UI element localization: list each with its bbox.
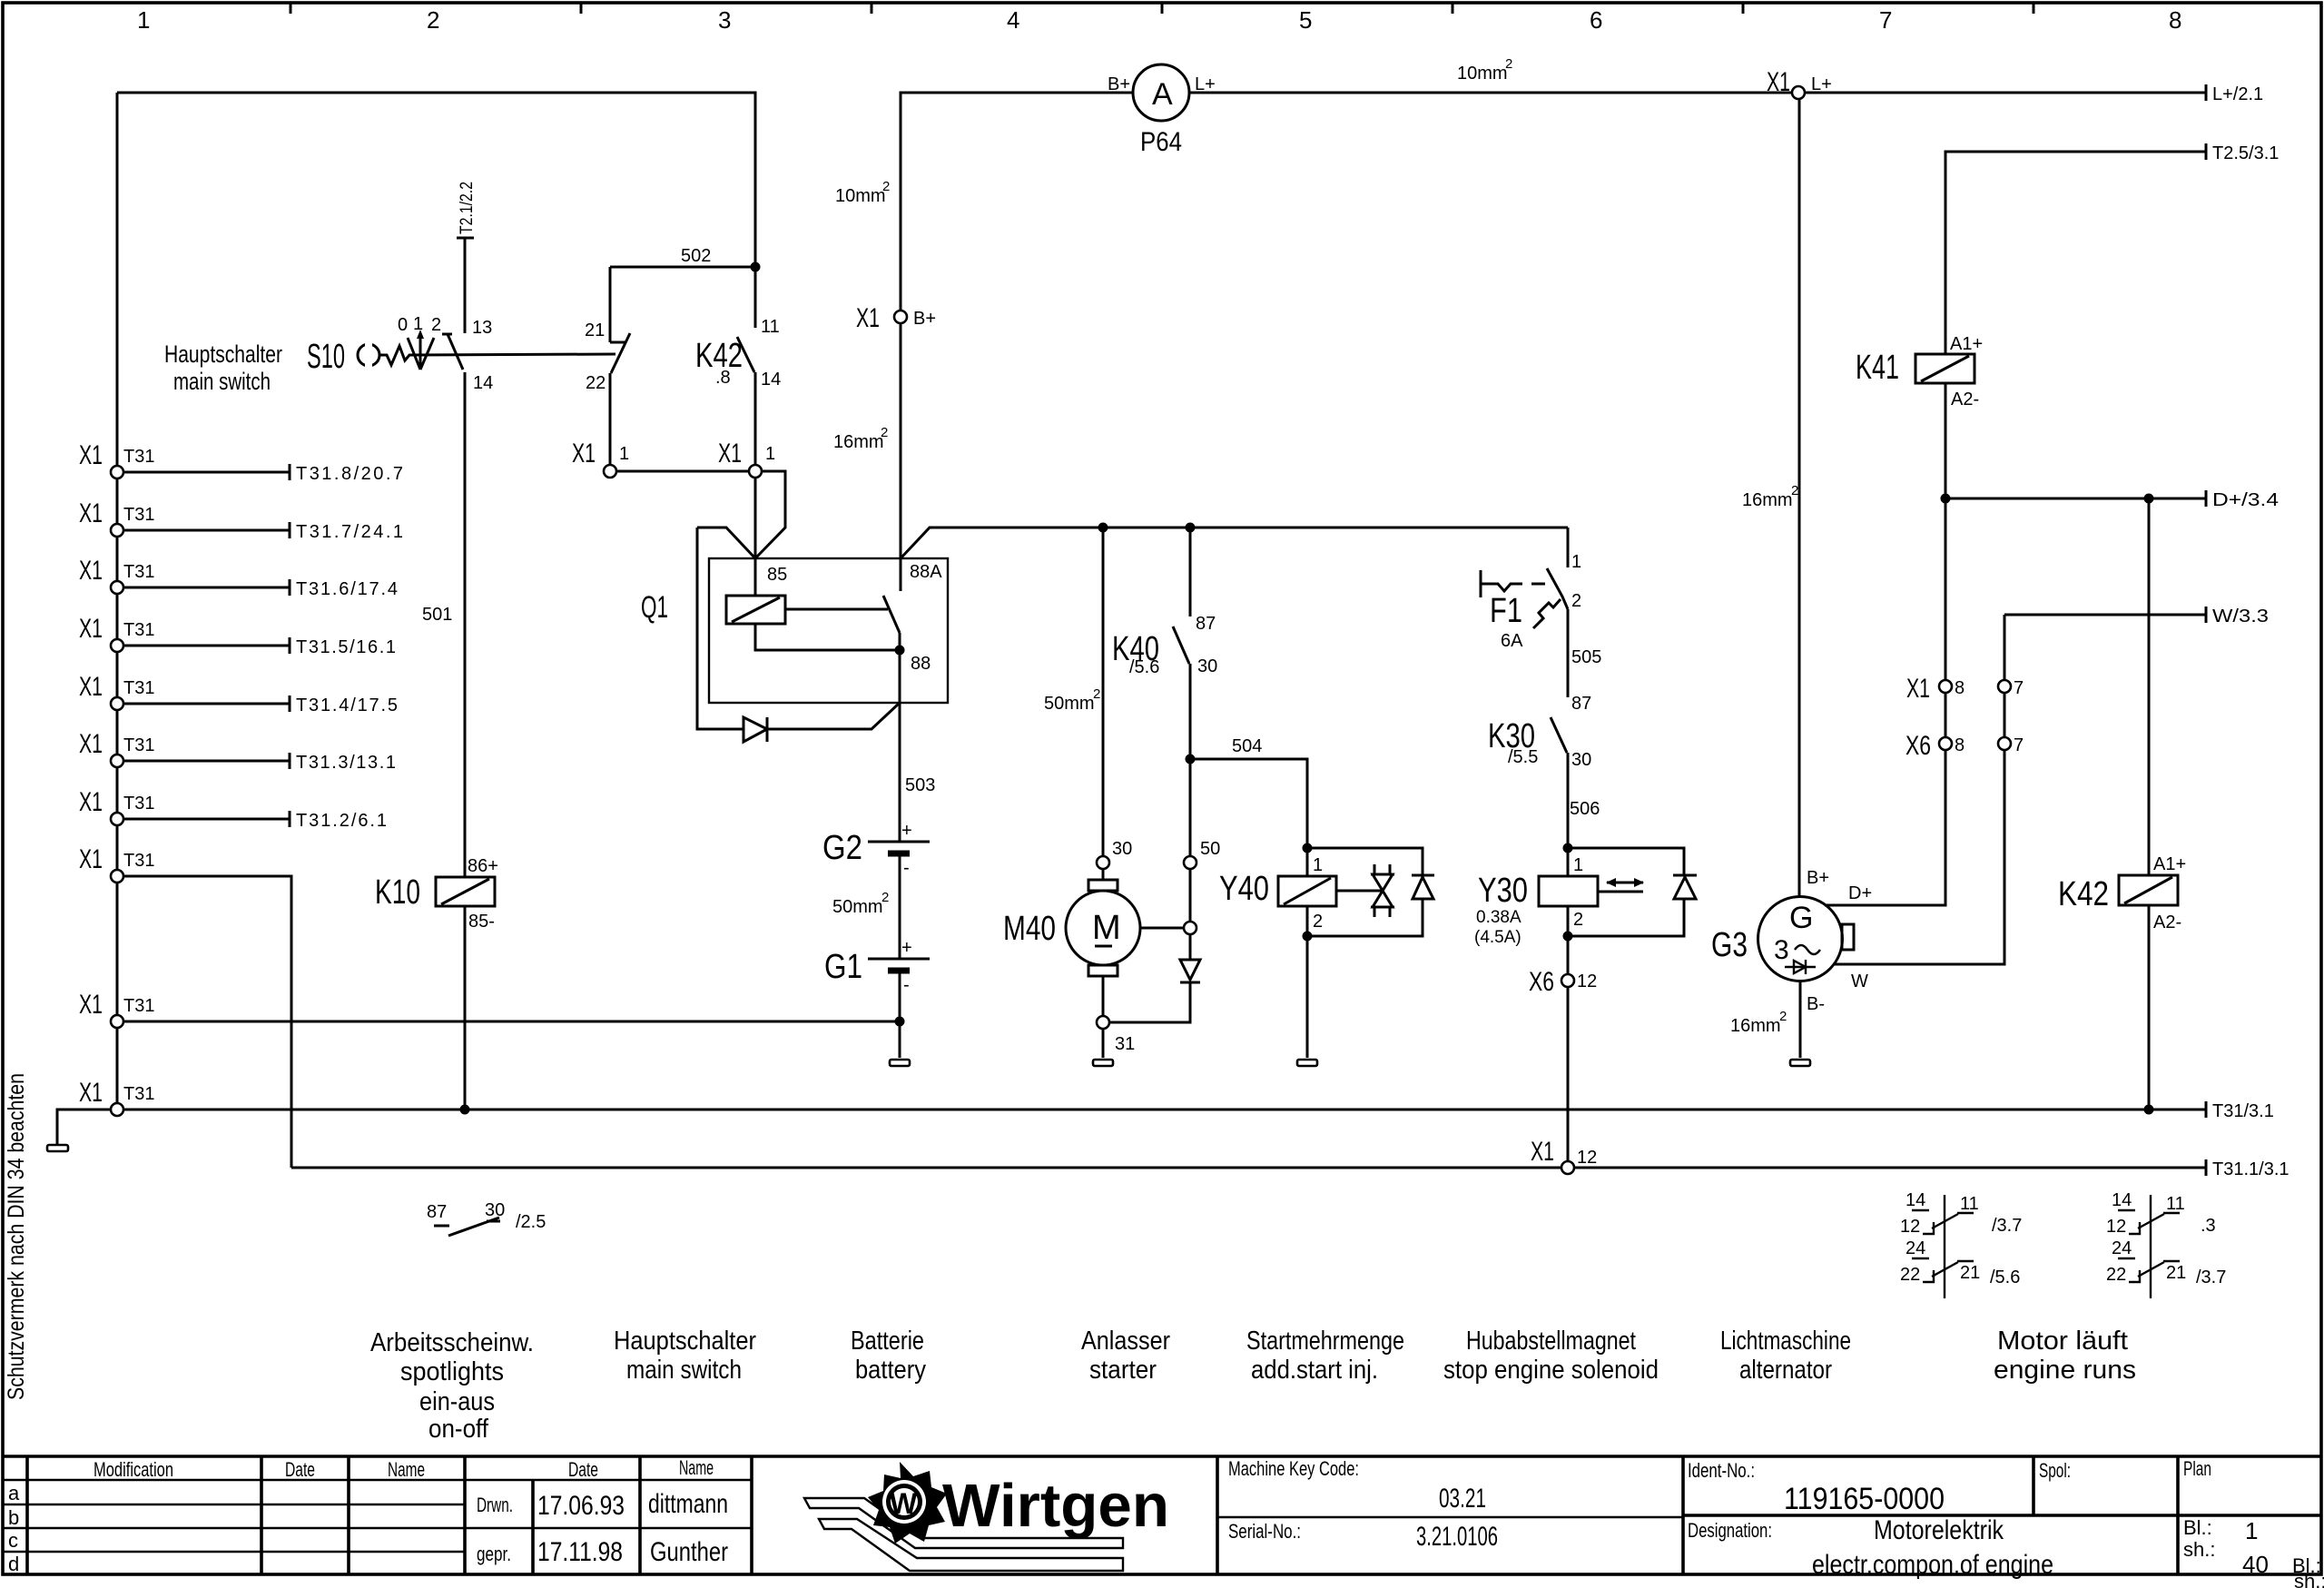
terminal 50	[1189, 759, 1192, 856]
svg-text:10mm: 10mm	[835, 186, 886, 206]
svg-text:1: 1	[413, 314, 423, 334]
terminal X1 T31 row6	[79, 729, 396, 773]
svg-text:50mm: 50mm	[832, 897, 883, 917]
svg-text:alternator: alternator	[1739, 1356, 1832, 1385]
wire 502	[610, 266, 755, 269]
svg-text:2: 2	[1779, 1009, 1787, 1024]
svg-text:X6: X6	[1529, 967, 1554, 997]
svg-text:/3.7: /3.7	[1992, 1216, 2022, 1236]
svg-text:Date: Date	[285, 1458, 315, 1481]
flag T31/3.1	[2149, 1109, 2206, 1111]
battery G1	[824, 938, 930, 995]
svg-text:d: d	[8, 1553, 19, 1575]
svg-text:T31.2/6.1: T31.2/6.1	[296, 811, 387, 831]
svg-text:sh.:: sh.:	[2294, 1570, 2324, 1588]
svg-text:K42: K42	[2058, 875, 2109, 913]
svg-text:c: c	[8, 1529, 18, 1552]
svg-text:T31: T31	[123, 505, 154, 525]
svg-text:add.start inj.: add.start inj.	[1251, 1356, 1378, 1385]
wire D+	[1825, 498, 1945, 905]
legend captions	[370, 1327, 2136, 1444]
wire W	[1834, 615, 2004, 991]
svg-text:Batterie: Batterie	[851, 1327, 924, 1356]
terminal X1:8	[1939, 680, 1952, 693]
svg-text:Drwn.: Drwn.	[477, 1494, 513, 1516]
svg-text:501: 501	[422, 605, 452, 625]
svg-text:/2.5: /2.5	[516, 1212, 546, 1232]
svg-text:5: 5	[1299, 6, 1312, 34]
svg-text:/5.5: /5.5	[1508, 747, 1538, 767]
svg-text:A: A	[1152, 77, 1173, 112]
contact K40 87/30	[1112, 528, 1217, 759]
flag T2.1/2.2	[457, 237, 474, 240]
contact K30 87/30	[1488, 694, 1591, 848]
svg-text:T31: T31	[123, 447, 154, 467]
svg-text:3: 3	[1774, 935, 1789, 965]
svg-text:30: 30	[1112, 839, 1132, 859]
svg-text:D+/3.4: D+/3.4	[2212, 490, 2279, 510]
svg-text:7: 7	[2014, 735, 2024, 755]
diode starter	[1189, 934, 1192, 960]
svg-text:6A: 6A	[1501, 631, 1523, 651]
svg-text:13: 13	[472, 318, 492, 338]
svg-text:2: 2	[1313, 912, 1323, 932]
svg-text:50: 50	[1200, 839, 1220, 859]
terminal X1 L+	[1792, 86, 1805, 99]
svg-text:03.21: 03.21	[1439, 1484, 1486, 1514]
svg-text:11: 11	[761, 317, 780, 337]
svg-text:K41: K41	[1856, 349, 1899, 387]
svg-text:B-: B-	[1807, 994, 1825, 1014]
svg-text:X1: X1	[79, 1078, 103, 1108]
svg-text:/5.6: /5.6	[1129, 657, 1159, 677]
terminal X6:8	[1939, 737, 1952, 750]
contact table K41	[1900, 1190, 2022, 1298]
svg-text:2: 2	[881, 425, 888, 440]
svg-text:dittmann: dittmann	[648, 1489, 728, 1519]
terminal X1:1 left	[604, 465, 616, 478]
svg-text:.3: .3	[2201, 1216, 2216, 1236]
svg-text:Hubabstellmagnet: Hubabstellmagnet	[1466, 1327, 1636, 1356]
wire row T31 bus	[123, 1109, 2149, 1111]
svg-text:Motor läuft: Motor läuft	[1997, 1327, 2128, 1356]
flag D+/3.4	[1941, 494, 1951, 504]
svg-text:2: 2	[431, 315, 441, 335]
solenoid Y40	[1219, 843, 1434, 1067]
svg-text:2: 2	[1791, 483, 1798, 498]
svg-text:16mm: 16mm	[833, 432, 884, 452]
logo Wirtgen	[804, 1462, 1169, 1571]
svg-text:-: -	[903, 975, 910, 995]
svg-text:3: 3	[718, 6, 731, 34]
svg-text:30: 30	[1197, 656, 1217, 676]
svg-text:6: 6	[1590, 6, 1602, 34]
svg-text:Name: Name	[679, 1456, 714, 1479]
flag T31.1/3.1	[2205, 1159, 2208, 1176]
svg-text:W: W	[1851, 972, 1868, 991]
svg-text:T31.8/20.7: T31.8/20.7	[296, 464, 403, 484]
alternator G3	[1711, 99, 1854, 1066]
node junction at M40 column	[1098, 523, 1108, 533]
svg-text:1: 1	[1313, 855, 1323, 875]
motor M40	[1003, 839, 1184, 1066]
svg-text:85: 85	[767, 565, 787, 585]
wire 505	[1567, 609, 1570, 697]
svg-text:14: 14	[761, 370, 781, 390]
wire X1 pair to Q1	[616, 470, 749, 473]
svg-text:Ident-No.:: Ident-No.:	[1688, 1459, 1755, 1482]
svg-text:4: 4	[1007, 6, 1019, 34]
svg-text:85-: 85-	[468, 912, 495, 932]
svg-text:P64: P64	[1140, 127, 1182, 157]
terminal X1 T31 row8	[79, 844, 291, 1168]
svg-text:electr.compon.of engine: electr.compon.of engine	[1812, 1550, 2053, 1580]
svg-text:X1: X1	[1767, 67, 1790, 97]
terminal X1 T31 row1	[79, 440, 403, 484]
svg-text:X1: X1	[79, 729, 103, 759]
svg-text:ein-aus: ein-aus	[419, 1387, 495, 1416]
svg-text:2: 2	[427, 6, 439, 34]
svg-text:.8: .8	[715, 368, 731, 388]
terminal rows X1 T31 with flags	[79, 440, 900, 1168]
svg-text:sh.:: sh.:	[2183, 1538, 2215, 1561]
wire battery middle	[899, 853, 901, 959]
svg-text:17.11.98: 17.11.98	[537, 1537, 623, 1567]
svg-text:2: 2	[882, 179, 890, 194]
terminal X1 T31 row2	[79, 498, 403, 542]
svg-text:Name: Name	[388, 1458, 425, 1481]
svg-text:Anlasser: Anlasser	[1081, 1327, 1170, 1356]
svg-text:T31.4/17.5: T31.4/17.5	[296, 695, 398, 715]
svg-text:A1+: A1+	[2153, 854, 2186, 874]
svg-text:2: 2	[1505, 56, 1512, 72]
wire M40 feed	[1102, 528, 1105, 856]
svg-text:31: 31	[1115, 1034, 1135, 1054]
svg-text:0.38A: 0.38A	[1476, 908, 1521, 927]
svg-text:Serial-No.:: Serial-No.:	[1228, 1520, 1301, 1543]
svg-text:X1: X1	[1531, 1137, 1554, 1167]
svg-text:21: 21	[2166, 1263, 2186, 1283]
svg-text:A2-: A2-	[1951, 390, 1979, 409]
terminal X6:12	[1567, 936, 1570, 974]
svg-text:3.21.0106: 3.21.0106	[1416, 1522, 1498, 1552]
svg-text:G2: G2	[822, 829, 862, 867]
contact table K42	[2106, 1190, 2226, 1298]
svg-text:M40: M40	[1003, 910, 1056, 948]
terminal X1 T31 row5	[79, 672, 398, 715]
svg-text:G: G	[1789, 901, 1813, 935]
svg-text:X1: X1	[718, 439, 742, 469]
svg-text:X1: X1	[79, 787, 103, 817]
svg-text:A2-: A2-	[2153, 912, 2181, 932]
svg-text:50mm: 50mm	[1044, 694, 1095, 714]
svg-text:B+: B+	[913, 309, 936, 329]
svg-text:T31/3.1: T31/3.1	[2212, 1101, 2274, 1121]
svg-text:7: 7	[2014, 678, 2024, 698]
svg-text:86+: 86+	[468, 856, 498, 876]
breaker F1	[1481, 528, 1581, 651]
svg-text:T31.5/16.1: T31.5/16.1	[296, 637, 396, 657]
svg-text:T31: T31	[123, 851, 154, 871]
svg-text:11: 11	[1960, 1194, 1979, 1214]
svg-text:12: 12	[1577, 972, 1597, 991]
svg-text:Modification: Modification	[94, 1458, 173, 1481]
svg-text:14: 14	[473, 373, 493, 393]
wire top-right bus	[1189, 92, 1792, 94]
svg-text:Hauptschalter: Hauptschalter	[164, 340, 282, 368]
svg-text:G1: G1	[824, 948, 862, 986]
svg-text:8: 8	[1955, 735, 1965, 755]
svg-text:X1: X1	[1906, 674, 1930, 704]
svg-text:Machine Key Code:: Machine Key Code:	[1228, 1457, 1359, 1480]
svg-text:main switch: main switch	[626, 1356, 742, 1385]
terminal X1 T31 row10	[79, 1078, 154, 1116]
svg-text:X1: X1	[79, 498, 103, 528]
wire 504	[1186, 755, 1196, 764]
svg-text:X1: X1	[856, 303, 880, 333]
wire left rail	[116, 93, 119, 1110]
svg-text:T31.6/17.4: T31.6/17.4	[296, 579, 398, 599]
svg-text:8: 8	[1955, 678, 1965, 698]
svg-text:Startmehrmenge: Startmehrmenge	[1246, 1327, 1404, 1356]
svg-text:M: M	[1092, 909, 1121, 947]
svg-text:X1: X1	[79, 990, 103, 1020]
svg-text:12: 12	[2106, 1217, 2126, 1237]
wire top-left bus	[117, 93, 755, 328]
svg-text:X6: X6	[1905, 731, 1931, 761]
svg-text:87: 87	[1196, 614, 1216, 634]
switch S10	[164, 314, 615, 395]
svg-text:starter: starter	[1089, 1356, 1157, 1385]
svg-text:T2.1/2.2: T2.1/2.2	[458, 182, 477, 234]
svg-text:a: a	[8, 1482, 20, 1504]
svg-text:Bl.:: Bl.:	[2183, 1516, 2212, 1539]
svg-text:40: 40	[2242, 1551, 2269, 1578]
svg-text:14: 14	[2112, 1190, 2132, 1210]
svg-text:on-off: on-off	[428, 1415, 489, 1444]
svg-text:21: 21	[585, 321, 605, 340]
svg-text:gepr.: gepr.	[477, 1543, 511, 1565]
svg-text:504: 504	[1232, 736, 1262, 756]
relay coil K10	[375, 856, 498, 1110]
svg-text:24: 24	[2112, 1238, 2132, 1258]
relay coil K41	[1856, 334, 1983, 498]
svg-text:22: 22	[586, 373, 606, 393]
terminal X1:1 right	[749, 465, 762, 478]
relay Q1	[641, 528, 1568, 842]
svg-text:W/3.3: W/3.3	[2212, 607, 2269, 626]
svg-text:Hauptschalter: Hauptschalter	[614, 1327, 756, 1356]
svg-text:12: 12	[1900, 1217, 1920, 1237]
ground left	[57, 1110, 111, 1145]
svg-text:2: 2	[1571, 591, 1581, 611]
svg-text:Wirtgen: Wirtgen	[942, 1472, 1169, 1540]
svg-text:stop engine solenoid: stop engine solenoid	[1443, 1356, 1659, 1385]
svg-text:88: 88	[911, 654, 931, 674]
svg-text:battery: battery	[855, 1356, 926, 1385]
svg-text:22: 22	[1900, 1265, 1920, 1285]
svg-text:B+: B+	[1807, 868, 1829, 888]
svg-text:Schutzvermerk nach DIN 34 beac: Schutzvermerk nach DIN 34 beachten	[4, 1073, 29, 1400]
terminal X1:12	[1561, 1161, 1574, 1174]
svg-text:87: 87	[1571, 694, 1591, 714]
contact S10 13/14	[442, 318, 493, 393]
svg-text:503: 503	[905, 775, 935, 795]
svg-text:+: +	[901, 821, 912, 841]
wire X1 B+ column	[901, 93, 1133, 311]
svg-text:1: 1	[137, 6, 150, 34]
svg-text:0: 0	[398, 315, 408, 335]
svg-text:main switch: main switch	[173, 368, 271, 395]
flag W/3.3	[2004, 614, 2206, 616]
svg-text:B+: B+	[1108, 74, 1130, 94]
svg-text:87: 87	[427, 1202, 447, 1222]
svg-text:Spol:: Spol:	[2039, 1459, 2071, 1482]
svg-text:Q1: Q1	[641, 590, 668, 625]
svg-text:X1: X1	[79, 556, 103, 586]
svg-text:X1: X1	[572, 439, 596, 469]
svg-text:/5.6: /5.6	[1990, 1267, 2020, 1287]
svg-text:T31: T31	[123, 794, 154, 814]
terminal X1 T31 row4	[79, 614, 396, 657]
title block	[3, 1456, 2324, 1588]
svg-text:T31: T31	[123, 562, 154, 582]
svg-text:22: 22	[2106, 1265, 2126, 1285]
svg-text:X1: X1	[79, 440, 103, 470]
svg-text:119165-0000: 119165-0000	[1784, 1482, 1945, 1516]
svg-text:T31: T31	[123, 735, 154, 755]
node junction 502/11	[751, 262, 761, 272]
svg-text:G3: G3	[1711, 926, 1748, 964]
svg-text:T31.1/3.1: T31.1/3.1	[2212, 1159, 2290, 1179]
svg-text:T31.3/13.1: T31.3/13.1	[296, 753, 396, 773]
svg-text:Y40: Y40	[1219, 870, 1269, 908]
svg-text:Lichtmaschine: Lichtmaschine	[1720, 1327, 1851, 1356]
svg-text:21: 21	[1960, 1263, 1980, 1283]
contact K42 11/14	[695, 267, 781, 465]
svg-text:1: 1	[1573, 855, 1583, 875]
svg-text:506: 506	[1570, 799, 1600, 819]
svg-text:engine runs: engine runs	[1994, 1356, 2136, 1385]
svg-text:/3.7: /3.7	[2196, 1267, 2226, 1287]
contact spare 87/30	[427, 1200, 546, 1236]
svg-text:T31: T31	[123, 678, 154, 698]
flag T2.5/3.1	[1945, 152, 2206, 354]
svg-text:Date: Date	[568, 1458, 598, 1481]
svg-text:T2.5/3.1: T2.5/3.1	[2212, 143, 2279, 163]
contact K42 21/22	[585, 267, 630, 465]
svg-text:30: 30	[485, 1200, 505, 1220]
svg-text:X1: X1	[79, 844, 103, 874]
svg-text:W: W	[890, 1487, 918, 1520]
svg-text:X1: X1	[79, 614, 103, 644]
ground battery	[890, 1060, 910, 1066]
terminal X1 B+	[894, 311, 907, 323]
flag L+/2.1	[1805, 92, 2206, 94]
svg-text:88A: 88A	[910, 562, 942, 582]
svg-text:2: 2	[1573, 910, 1583, 930]
svg-text:b: b	[8, 1506, 19, 1529]
svg-text:Gunther: Gunther	[650, 1537, 728, 1567]
svg-text:2: 2	[881, 890, 889, 905]
svg-text:A1+: A1+	[1950, 334, 1983, 354]
svg-text:17.06.93: 17.06.93	[537, 1491, 625, 1521]
svg-text:2: 2	[1093, 686, 1100, 702]
svg-text:Designation:: Designation:	[1688, 1519, 1772, 1542]
svg-text:1: 1	[1571, 552, 1581, 572]
svg-text:K10: K10	[375, 873, 420, 912]
terminal X6:7	[1998, 737, 2011, 750]
terminal X1 T31 row9	[79, 990, 900, 1028]
svg-text:1: 1	[619, 444, 629, 464]
svg-text:30: 30	[1571, 750, 1591, 770]
svg-text:X1: X1	[79, 672, 103, 702]
svg-text:spotlights: spotlights	[400, 1357, 504, 1386]
terminal X1 T31 row3	[79, 556, 398, 599]
svg-text:12: 12	[1577, 1148, 1597, 1168]
svg-text:502: 502	[681, 246, 711, 266]
svg-text:Y30: Y30	[1478, 872, 1528, 910]
svg-text:10mm: 10mm	[1457, 64, 1508, 84]
wire battery minus	[899, 971, 901, 1058]
solenoid Y30	[1474, 843, 1697, 948]
svg-text:16mm: 16mm	[1742, 490, 1793, 510]
relay coil K42	[2058, 498, 2186, 1110]
svg-text:8: 8	[2169, 6, 2181, 34]
svg-text:F1: F1	[1490, 592, 1522, 630]
svg-text:L+/2.1: L+/2.1	[2212, 84, 2263, 104]
terminal X1 T31 row7	[79, 787, 387, 831]
svg-text:T31: T31	[123, 996, 154, 1016]
svg-text:14: 14	[1905, 1190, 1925, 1210]
svg-text:(4.5A): (4.5A)	[1474, 928, 1521, 947]
svg-text:T31: T31	[123, 1084, 154, 1104]
svg-text:16mm: 16mm	[1730, 1016, 1781, 1036]
svg-text:Plan: Plan	[2183, 1457, 2211, 1480]
battery G2	[822, 821, 930, 878]
svg-text:T31.7/24.1: T31.7/24.1	[296, 522, 403, 542]
node junction at K40 column	[1186, 523, 1196, 533]
svg-text:T31: T31	[123, 620, 154, 640]
svg-text:-: -	[903, 858, 910, 878]
svg-text:1: 1	[765, 444, 775, 464]
svg-text:1: 1	[2245, 1517, 2258, 1544]
svg-text:7: 7	[1879, 6, 1892, 34]
svg-text:S10: S10	[307, 338, 345, 376]
svg-text:+: +	[901, 938, 912, 958]
svg-text:D+: D+	[1848, 883, 1872, 903]
terminal X1:7	[1998, 680, 2011, 693]
svg-text:Motorelektrik: Motorelektrik	[1874, 1515, 2004, 1545]
wire 501	[464, 372, 467, 877]
ammeter P64	[1108, 64, 1216, 157]
wire row T31.1 bus	[291, 1167, 1561, 1169]
svg-text:505: 505	[1571, 647, 1601, 667]
svg-text:11: 11	[2166, 1194, 2185, 1214]
svg-text:24: 24	[1905, 1238, 1925, 1258]
svg-text:Arbeitsscheinw.: Arbeitsscheinw.	[370, 1328, 534, 1357]
